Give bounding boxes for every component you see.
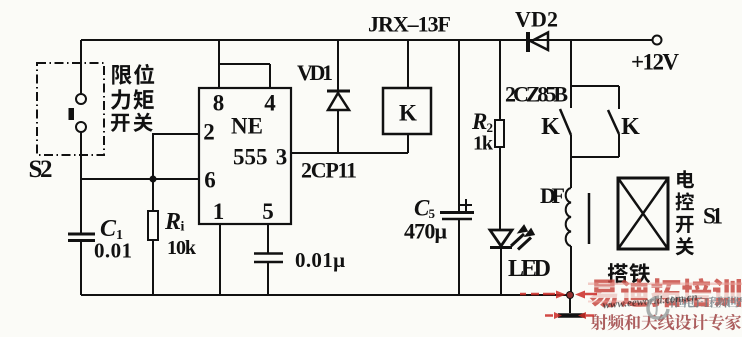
- svg-text:K: K: [541, 114, 560, 140]
- svg-text:6: 6: [204, 168, 216, 193]
- svg-text:S2: S2: [29, 156, 53, 183]
- svg-text:S1: S1: [703, 204, 723, 229]
- svg-text:JRX–13F: JRX–13F: [368, 12, 451, 37]
- svg-text:C: C: [100, 216, 117, 242]
- svg-text:VD1: VD1: [297, 60, 333, 85]
- svg-text:4: 4: [264, 91, 276, 116]
- svg-text:5: 5: [429, 206, 436, 221]
- svg-text:DF: DF: [540, 183, 565, 208]
- svg-text:+12V: +12V: [631, 50, 679, 75]
- svg-text:NE: NE: [231, 114, 263, 139]
- svg-text:10k: 10k: [167, 237, 197, 259]
- svg-text:VD2: VD2: [515, 7, 558, 32]
- svg-text:5: 5: [262, 199, 274, 224]
- svg-text:0.01: 0.01: [94, 239, 132, 263]
- svg-text:3: 3: [276, 145, 288, 170]
- svg-text:470μ: 470μ: [404, 219, 448, 244]
- svg-text:LED: LED: [508, 256, 551, 282]
- svg-text:1k: 1k: [473, 133, 494, 155]
- svg-text:1: 1: [213, 199, 225, 224]
- svg-text:i: i: [181, 220, 185, 235]
- svg-text:8: 8: [213, 91, 225, 116]
- svg-text:R: R: [471, 109, 487, 134]
- svg-text:K: K: [621, 114, 640, 140]
- svg-text:2CP11: 2CP11: [301, 158, 357, 183]
- svg-text:2CZ85B: 2CZ85B: [505, 82, 568, 107]
- svg-text:1: 1: [116, 228, 123, 243]
- svg-text:K: K: [399, 101, 417, 126]
- svg-text:R: R: [164, 209, 181, 235]
- svg-text:555: 555: [233, 145, 268, 170]
- svg-text:2: 2: [203, 120, 215, 145]
- svg-text:0.01μ: 0.01μ: [295, 248, 345, 272]
